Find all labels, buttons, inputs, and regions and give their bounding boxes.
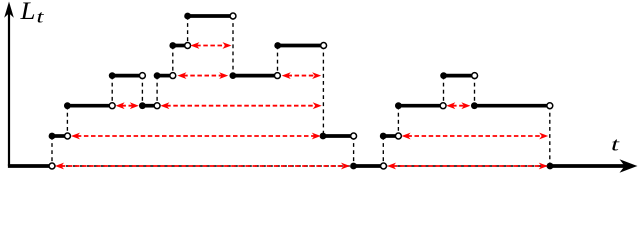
dashed jump line x=323.4 (E-B): [322, 46, 324, 137]
dashed jump line x=398.4 (C-B): [397, 106, 399, 136]
ladder segment A1: [8, 163, 55, 169]
ladder segment A2: [350, 163, 386, 170]
svg-text:t: t: [37, 7, 45, 27]
dashed t-axis segment 1: [52, 165, 354, 167]
dashed jump line x=474.5 (D-C): [474, 76, 476, 106]
ladder segment E1: [169, 42, 190, 49]
svg-text:L: L: [19, 0, 35, 25]
ladder segment A3 with t-axis arrow: [547, 159, 638, 172]
red excursion arrow D2: [282, 72, 322, 79]
dashed jump line x=277.5 (E-D): [277, 46, 279, 76]
red excursion arrow B2: [402, 133, 549, 140]
red excursion arrow A2: [387, 163, 548, 170]
ladder segment E2: [274, 42, 326, 49]
dashed jump line x=549.8 (C-A): [549, 106, 551, 166]
ladder segment B2: [320, 133, 357, 140]
red excursion arrow C3: [446, 102, 470, 109]
label L_t: [19, 0, 44, 27]
dashed jump line x=443.5 (D-C): [443, 76, 445, 106]
svg-text:t: t: [611, 135, 620, 156]
dashed jump line x=52 (B-A): [51, 136, 53, 166]
dashed jump line x=383.3 (B-A): [382, 136, 384, 166]
red excursion arrow B1: [71, 133, 321, 140]
dashed jump line x=67.4 (C-B): [66, 106, 68, 136]
red excursion arrow C2: [160, 102, 321, 109]
dashed jump line x=157.1 (D-C): [156, 76, 158, 106]
ladder segment C1: [64, 102, 115, 109]
dashed jump line x=172.8 (E-D): [172, 46, 174, 76]
label t: [611, 135, 620, 156]
dashed jump line x=353.6 (B-A): [353, 136, 355, 166]
ladder segment D1: [109, 72, 146, 79]
red excursion arrow A1: [55, 163, 350, 170]
red excursion arrow E1: [190, 42, 231, 49]
dashed jump line x=112.2 (D-C): [111, 76, 113, 106]
dashed jump line x=187.6 (F-E): [187, 16, 189, 46]
ladder segment C3: [395, 102, 446, 109]
red excursion arrow D1: [177, 72, 228, 79]
ladder segment D2: [154, 72, 176, 79]
y-axis with arrow: [4, 2, 14, 167]
ladder segment F1: [184, 13, 236, 20]
ladder segment C2: [139, 102, 160, 109]
dashed jump line x=233 (F-D): [232, 16, 234, 76]
dashed t-axis segment 2: [384, 165, 551, 167]
ladder segment C4: [471, 102, 553, 109]
dashed jump line x=142.4 (D-C): [141, 76, 143, 106]
ladder segment B1: [49, 133, 71, 140]
ladder segment D3: [230, 72, 281, 79]
ladder segment B3: [380, 133, 402, 140]
ladder segment D4: [440, 72, 477, 79]
red excursion arrow C1: [116, 102, 139, 109]
